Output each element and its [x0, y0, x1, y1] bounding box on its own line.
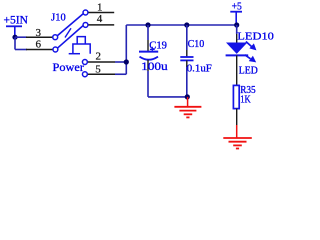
svg-text:1K: 1K [240, 94, 251, 105]
junction at +5IN node [12, 35, 17, 40]
pin 1 terminal circle [83, 10, 88, 15]
capacitor C19 pin lower [147, 60, 149, 71]
wire C19 lower [147, 71, 149, 97]
resistor lower pin [236, 109, 238, 125]
svg-text:6: 6 [36, 39, 42, 51]
wire riser [125, 25, 127, 74]
power port +5 stub [235, 12, 237, 25]
switch throw bar 3-1 [58, 14, 84, 36]
wire +5 to LED [236, 25, 238, 34]
capacitor C19 polarity plus [150, 47, 155, 52]
pin 3 terminal circle [53, 35, 58, 40]
capacitor C19 pin upper [147, 40, 149, 51]
ground right bar4 [236, 148, 239, 150]
pin 5 terminal circle [82, 72, 87, 77]
svg-text:LED10: LED10 [237, 30, 274, 42]
junction C10 top [184, 22, 189, 27]
pin 2 terminal circle [82, 60, 87, 65]
switch mechanical link [65, 28, 71, 37]
wire +5IN to pin3 [15, 36, 27, 38]
svg-text:100u: 100u [141, 59, 168, 73]
wire pin5 to riser [115, 73, 126, 75]
junction C19 top [145, 22, 150, 27]
ground middle bar3 [184, 113, 193, 115]
resistor R35 body [233, 85, 239, 108]
switch button base line [69, 53, 80, 55]
svg-text:4: 4 [97, 13, 103, 25]
ground right stem [236, 125, 238, 138]
wire bottom rail [148, 96, 187, 98]
LED anode pin [236, 34, 238, 43]
junction pin2/pin5 [124, 59, 129, 64]
switch button knob [77, 37, 85, 44]
wire pin2 to riser [115, 61, 126, 63]
wire C19 upper [147, 25, 149, 40]
ground middle bar1 [174, 106, 201, 108]
svg-text:0.1uF: 0.1uF [187, 63, 212, 75]
pin 2 line [88, 61, 115, 63]
power port +5IN bar [6, 25, 22, 27]
ground middle bar2 [179, 110, 196, 112]
wire C10 upper [186, 25, 188, 50]
junction +5 node [234, 22, 239, 27]
wire C10 lower [186, 67, 188, 97]
wire to pin6 [15, 49, 27, 51]
svg-text:+5IN: +5IN [4, 14, 29, 26]
LED cathode pin / wire to resistor [236, 55, 238, 86]
pin 6 line [26, 49, 53, 51]
pin 4 terminal circle [83, 22, 88, 27]
capacitor C19 bottom plate arc [140, 57, 159, 60]
junction bottom rail [185, 94, 190, 99]
svg-text:1: 1 [97, 2, 103, 14]
switch throw bar 6-4 [58, 26, 83, 48]
ground middle stem [187, 97, 189, 107]
svg-text:5: 5 [95, 64, 101, 76]
svg-text:3: 3 [36, 27, 42, 39]
wire +5IN down [14, 37, 16, 49]
capacitor C10 plate upper [180, 56, 193, 58]
capacitor C10 pin lower [186, 60, 188, 67]
power port +5 bar [230, 11, 242, 13]
svg-text:C10: C10 [188, 38, 205, 50]
ground right bar1 [223, 137, 252, 139]
LED light arrow 1 [246, 42, 256, 50]
switch button body [73, 44, 90, 54]
svg-text:C19: C19 [149, 40, 167, 52]
capacitor C10 plate lower [180, 59, 193, 61]
pin 4 line [88, 24, 114, 26]
pin 6 terminal circle [53, 47, 58, 52]
capacitor C19 top plate [139, 51, 158, 53]
capacitor C10 pin upper [186, 50, 188, 57]
svg-text:Power: Power [53, 60, 85, 74]
svg-text:2: 2 [96, 50, 102, 62]
svg-text:J10: J10 [51, 13, 66, 24]
pin 1 line [88, 12, 114, 14]
LED light arrow 2 [245, 55, 256, 62]
ground right bar2 [229, 141, 247, 143]
LED LED10 triangle [226, 43, 247, 54]
wire top rail [126, 24, 236, 26]
LED cathode bar [226, 54, 249, 56]
pin 5 line [88, 73, 115, 75]
svg-text:LED: LED [239, 65, 258, 76]
pin 3 line [26, 36, 52, 38]
power port +5IN stub [14, 26, 16, 37]
ground right bar3 [233, 144, 242, 146]
ground middle bar4 [186, 116, 189, 118]
